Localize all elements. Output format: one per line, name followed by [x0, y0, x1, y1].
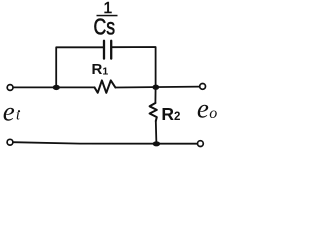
svg-text:o: o	[209, 105, 217, 122]
svg-text:e: e	[197, 93, 209, 123]
svg-text:ι: ι	[16, 107, 20, 123]
svg-text:Cs: Cs	[94, 13, 116, 39]
svg-text:R: R	[161, 104, 174, 124]
svg-text:1: 1	[102, 66, 108, 78]
svg-text:R: R	[92, 61, 103, 78]
svg-text:e: e	[3, 96, 15, 126]
svg-text:2: 2	[174, 111, 180, 123]
